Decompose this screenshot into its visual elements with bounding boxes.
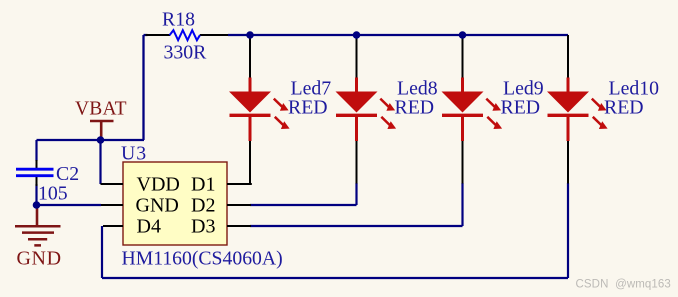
ground symbol bars (15, 226, 61, 245)
pin: R18 pin 2 stub (200, 34, 228, 36)
svg-text:VBAT: VBAT (75, 99, 127, 120)
diode Led9 symbol (461, 78, 464, 93)
pin: U3 GND stub (101, 204, 123, 206)
diode Led8 symbol (355, 78, 358, 93)
Led10 emission arrow 2 (593, 117, 601, 125)
svg-text:GND: GND (136, 195, 179, 217)
junction: VBAT rail / VDD riser (97, 136, 105, 144)
svg-text:RED: RED (604, 97, 644, 119)
Led10 emission arrow 1 (592, 99, 600, 107)
junction: top wire at Led8 (353, 31, 361, 39)
svg-text:HM1160(CS4060A): HM1160(CS4060A) (122, 248, 283, 270)
LED Led7 group (229, 35, 331, 184)
diode Led7 symbol (249, 78, 252, 93)
pin: Led9 anode black (462, 35, 464, 78)
Led9 emission arrow 1 (486, 99, 494, 107)
junction: top wire at Led7 (246, 31, 254, 39)
pin: U3 D2 stub (227, 204, 251, 206)
svg-text:D1: D1 (191, 174, 215, 196)
Led7 emission arrow 2 (275, 117, 283, 125)
capacitor C2 plates (16, 169, 54, 176)
capacitor C2 pin stubs (36, 160, 38, 186)
pin: Led8 anode black (356, 35, 358, 78)
wire: Led10 cathode vertical down to bottom run (567, 183, 569, 278)
LED Led8 group (336, 35, 438, 184)
power port VBAT lead (100, 122, 103, 140)
wire: D1 riser to Led7 cathode (black) (249, 141, 251, 184)
LED Led10 group (547, 35, 659, 184)
diode Led10 symbol (567, 78, 570, 93)
wire: Led9 cathode riser (461, 183, 463, 226)
wire: top horizontal net from R18 to Led10 column (144, 34, 569, 36)
wire: vertical from VBAT rail down to VDD pin (99, 140, 101, 184)
pin: Led7 cathode black (249, 141, 251, 184)
pin: R18 pin 1 stub (146, 34, 171, 36)
Led7 emission arrow 1 (274, 99, 282, 107)
svg-text:R18: R18 (162, 9, 195, 31)
Led9 emission arrow 2 (487, 117, 495, 125)
wire: D4 vertical drop at left of U3 (101, 226, 103, 278)
junction: C2 bottom / GND wire (33, 201, 41, 209)
svg-text:330R: 330R (164, 42, 208, 64)
svg-text:105: 105 (38, 183, 68, 205)
pin: Led10 anode black (567, 35, 569, 78)
pin: Led10 cathode black (567, 141, 569, 184)
Led8 emission arrow 1 (380, 99, 388, 107)
wire: GND node horizontal to GND pin (37, 204, 102, 206)
svg-text:D3: D3 (191, 216, 215, 238)
wire: Led8 cathode riser (355, 183, 357, 205)
svg-text:RED: RED (395, 97, 435, 119)
resistor R18 body zigzag (170, 30, 200, 40)
wire: left vertical from R18 down to VBAT rail (142, 35, 144, 140)
power port VBAT bar (90, 120, 114, 123)
wire: D2 horizontal to Led8 column (250, 204, 357, 206)
pin: U3 D1 stub (227, 183, 251, 184)
pin: U3 D3 stub (227, 225, 251, 227)
svg-text:RED: RED (501, 97, 541, 119)
svg-text:CSDN @wmq163: CSDN @wmq163 (576, 279, 671, 291)
wire: C2 bottom lead down to GND node (35, 184, 37, 205)
svg-text:VDD: VDD (137, 174, 180, 196)
pin: Led8 cathode black (356, 141, 358, 184)
wire: D4 bottom horizontal run to Led10 (102, 277, 568, 279)
svg-text:D2: D2 (191, 195, 215, 217)
junction: top wire at Led9 (459, 31, 467, 39)
pin: Led9 cathode black (462, 141, 464, 184)
svg-text:D4: D4 (137, 216, 161, 238)
svg-text:GND: GND (17, 248, 62, 270)
pin: U3 VDD stub (101, 183, 124, 185)
svg-text:U3: U3 (121, 143, 147, 165)
IC U3 body (123, 162, 227, 245)
Led8 emission arrow 2 (381, 117, 389, 125)
wire: VBAT horizontal rail from C2 to R18 riser (37, 139, 145, 141)
svg-text:RED: RED (288, 97, 328, 119)
wire: D3 horizontal to Led9 column (250, 225, 463, 227)
ground symbol lead (36, 205, 39, 226)
pin: Led7 anode black (249, 35, 251, 78)
LED Led9 group (442, 35, 544, 184)
wire: C2 top lead vertical (35, 140, 37, 161)
pin: U3 D4 stub (103, 225, 123, 227)
